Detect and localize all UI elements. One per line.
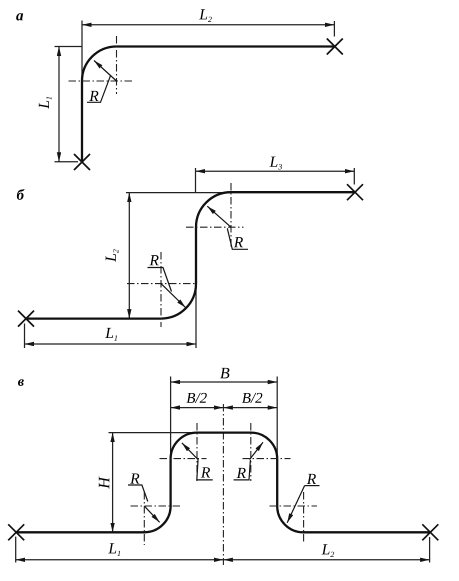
centerline vertical lower-right arc bbox=[303, 492, 305, 544]
dimension B line with arrows bbox=[171, 381, 278, 383]
label L1 (rotated) bbox=[39, 97, 52, 109]
dimension L1 (of в) with arrows bbox=[16, 559, 224, 561]
pipe a: vertical leg, corner arc R, horizontal leg bbox=[82, 47, 335, 163]
label L2 bbox=[199, 9, 212, 22]
centerline vertical upper-left arc bbox=[196, 423, 198, 481]
dimension L1 (of б) line with arrows bbox=[25, 343, 197, 345]
wire: L1 left extension line (below X) bbox=[15, 537, 17, 563]
wire: B right extension line bbox=[276, 377, 278, 456]
wire: L2 right extension line (below X) bbox=[429, 537, 431, 563]
label L2 of в bbox=[322, 544, 335, 557]
wire: L1 left extension line (below X) bbox=[24, 324, 26, 349]
label L1 of б bbox=[105, 328, 117, 341]
centerline horizontal lower-left arc bbox=[131, 505, 182, 507]
R label leader lower bbox=[148, 268, 172, 292]
label в bbox=[18, 379, 24, 386]
R leader upper-left bbox=[197, 459, 213, 480]
dimension B/2 left with arrows bbox=[171, 407, 224, 409]
label R lower-left bbox=[130, 473, 139, 483]
centerline vertical upper arc centre bbox=[230, 183, 232, 249]
end marker X (bottom of vertical leg) bbox=[74, 154, 90, 170]
end marker X (left end of б) bbox=[18, 311, 34, 327]
label B bbox=[220, 368, 229, 379]
radius R arrow (lower arc) bbox=[161, 284, 186, 308]
label R lower-right bbox=[307, 474, 316, 484]
dimension B/2 right with arrows bbox=[223, 407, 277, 409]
wire: centre axis (vertical dash-dot) bbox=[222, 404, 224, 565]
centerline horizontal upper arc centre bbox=[186, 226, 244, 228]
dimension L2 (of в) with arrows bbox=[223, 559, 429, 561]
dimension L1 line with arrows bbox=[58, 47, 60, 162]
centerline vertical lower arc centre bbox=[160, 252, 162, 327]
label R lower bbox=[149, 255, 158, 265]
dimension L3 line with arrows bbox=[196, 170, 355, 172]
wire: L3 left extension line bbox=[195, 168, 197, 192]
wire: L1 right extension line (pipe axis extended down) bbox=[195, 284, 197, 348]
wire: L1 top extension line bbox=[55, 46, 83, 48]
R leader lower-left bbox=[128, 485, 148, 502]
label R bbox=[89, 91, 98, 101]
radius R arrow line from centre to arc bbox=[94, 61, 117, 82]
label а bbox=[16, 13, 23, 20]
label H (rotated) bbox=[99, 476, 109, 488]
wire: B left extension line bbox=[170, 377, 172, 456]
label R upper-right bbox=[237, 468, 246, 478]
label L1 of в bbox=[108, 543, 120, 556]
wire: L2 right extension line bbox=[333, 21, 335, 37]
centerline horizontal upper-right arc bbox=[243, 458, 291, 460]
centerline vertical upper-right arc bbox=[250, 423, 252, 481]
radius R arrow lower-right arc (single leader) bbox=[287, 486, 304, 523]
wire: H top extension line bbox=[109, 432, 198, 434]
end marker X (right end of в) bbox=[422, 524, 438, 540]
label R upper-left bbox=[201, 467, 210, 477]
R label leader (bent) bbox=[87, 76, 111, 103]
radius R arrow lower-left arc bbox=[144, 506, 159, 522]
label б bbox=[17, 189, 25, 200]
label B/2 right bbox=[242, 393, 262, 403]
label L2 of б (rotated) bbox=[106, 249, 119, 262]
centerline vertical lower-left arc bbox=[143, 492, 145, 545]
centerline horizontal through arc centre bbox=[69, 80, 134, 82]
wire: L2 top extension line bbox=[126, 192, 231, 194]
label R upper bbox=[234, 237, 243, 247]
end marker X (left end of в) bbox=[8, 524, 24, 540]
dimension L2 (of б) line with arrows bbox=[128, 193, 130, 319]
wire: L2 left extension line (pipe axis extended up) bbox=[81, 21, 83, 82]
centerline horizontal lower-right arc bbox=[270, 505, 318, 507]
dimension L2 line with arrows bbox=[82, 24, 334, 26]
pipe б: S-bend bbox=[26, 192, 355, 318]
centerline horizontal upper-left arc bbox=[160, 458, 207, 460]
radius R arrow (upper arc) bbox=[207, 206, 231, 227]
centerline vertical through arc centre bbox=[116, 36, 118, 94]
end marker X (right end of horizontal leg) bbox=[327, 39, 343, 55]
radius R arrow upper-right arc bbox=[250, 442, 263, 459]
pipe в: hat profile bbox=[16, 433, 430, 533]
label B/2 left bbox=[186, 393, 206, 403]
R underline lower-right bbox=[305, 485, 320, 487]
end marker X (right end of б) bbox=[347, 184, 363, 200]
wire: L1 bottom extension line bbox=[55, 161, 79, 163]
radius R arrow upper-left arc bbox=[182, 443, 198, 460]
label L3 bbox=[269, 157, 282, 170]
centerline horizontal lower arc centre bbox=[127, 283, 197, 285]
R label leader upper bbox=[227, 228, 248, 249]
dimension H line with arrows bbox=[112, 433, 114, 533]
R leader upper-right bbox=[234, 460, 251, 480]
wire: L3 right extension line bbox=[353, 168, 355, 185]
